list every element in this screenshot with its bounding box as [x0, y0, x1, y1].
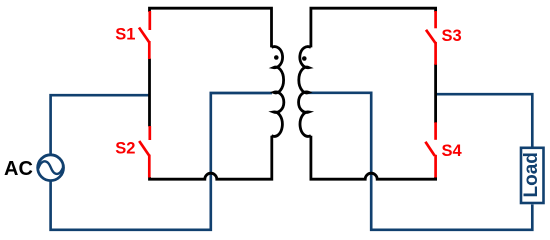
svg-text:S2: S2	[115, 139, 135, 157]
wire: AC top to S1/S2 midpoint (blue)	[51, 95, 150, 155]
wire: black segment between S3 and S4	[434, 64, 437, 123]
polarity dot primary	[274, 55, 279, 60]
wire: right center tap to bottom-right blue run	[306, 93, 532, 230]
wire: black segment between S1 and S2	[148, 59, 151, 127]
switch S1	[148, 11, 151, 30]
wire: S3/S4 midpoint to Load top (blue)	[436, 94, 533, 146]
transformer T1 secondary winding	[299, 47, 311, 137]
wire: left bridge top (black)	[150, 8, 272, 47]
wire: right bridge top (black)	[311, 8, 436, 47]
svg-text:Load: Load	[521, 152, 542, 197]
switch S2	[148, 126, 151, 140]
svg-text:AC: AC	[4, 158, 33, 180]
switch S3	[434, 11, 437, 28]
wire: AC bottom, bottom-left blue run, up to left center tap	[51, 93, 272, 230]
switch S4	[434, 122, 437, 140]
wire: right bridge bottom with hop over blue (black)	[311, 136, 436, 179]
transformer T1 primary winding	[272, 47, 284, 137]
polarity dot secondary	[302, 56, 307, 61]
wire: left bridge bottom with hop over blue (black)	[150, 136, 272, 179]
svg-text:S4: S4	[442, 142, 463, 160]
load resistor	[521, 148, 544, 203]
svg-text:S1: S1	[115, 25, 135, 43]
AC source V1	[38, 155, 64, 181]
svg-text:S3: S3	[442, 27, 462, 45]
